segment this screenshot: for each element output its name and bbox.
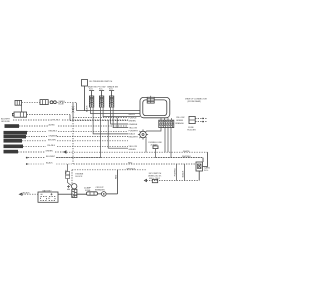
wire B5 xyxy=(23,145,128,147)
svg-text:ORANGE: ORANGE xyxy=(49,134,58,137)
wire W7 blue/white xyxy=(26,156,203,158)
bus label column xyxy=(129,114,139,151)
wire harness top row xyxy=(22,102,40,104)
wire B4 xyxy=(22,140,128,142)
label box B4 ignition xyxy=(4,139,23,143)
wire seat switch leg b xyxy=(93,107,128,134)
svg-text:WHITE: WHITE xyxy=(129,114,136,116)
wire riser x117.5 xyxy=(116,170,118,194)
key switch note text xyxy=(148,173,162,183)
wire B3 xyxy=(26,134,128,137)
svg-text:WHT/BLK: WHT/BLK xyxy=(127,168,137,170)
right connector J2 xyxy=(175,116,208,131)
wire red run label xyxy=(128,163,133,165)
wire connector drop to starter xyxy=(66,164,71,185)
svg-text:BROWN: BROWN xyxy=(48,140,56,142)
svg-text:INTERLOCK: INTERLOCK xyxy=(4,147,16,149)
circuit breaker CB1 xyxy=(95,187,106,196)
svg-text:ORANGE: ORANGE xyxy=(129,123,138,126)
svg-text:SOL.: SOL. xyxy=(204,170,209,172)
wire ground lead xyxy=(13,119,128,121)
connector end view A1 xyxy=(138,129,148,139)
svg-text:LIGHT RELAY: LIGHT RELAY xyxy=(4,136,17,139)
oil pressure switch S4 xyxy=(82,80,113,87)
battery BT1 xyxy=(38,189,58,202)
bullet connector pair xyxy=(50,101,56,104)
terminal pin block J1 xyxy=(159,120,174,127)
wire pin leg 2 xyxy=(164,128,166,153)
svg-text:PURPLE: PURPLE xyxy=(129,117,138,119)
svg-text:ORANGE: ORANGE xyxy=(175,122,184,125)
wire brake switch leg b xyxy=(113,107,128,128)
svg-text:AMMETER: AMMETER xyxy=(5,125,16,128)
wire vertical x73.5 to lower run xyxy=(72,121,74,165)
svg-text:RED: RED xyxy=(128,163,133,165)
fuse F1 xyxy=(84,187,98,196)
inline connector marks on drop B xyxy=(72,106,74,112)
svg-text:BLACK: BLACK xyxy=(129,133,136,136)
svg-text:GREEN: GREEN xyxy=(176,120,184,122)
starter M1 xyxy=(72,184,77,198)
label box B1 ammeter xyxy=(5,124,20,128)
svg-text:WHITE: WHITE xyxy=(183,151,190,153)
svg-text:RED/BLK: RED/BLK xyxy=(49,130,58,132)
text view of connector xyxy=(185,98,207,103)
wire harness lower row xyxy=(27,114,70,116)
svg-text:BLACK: BLACK xyxy=(46,162,53,165)
svg-text:YELLOW: YELLOW xyxy=(129,146,137,148)
wire black drop xyxy=(182,164,185,181)
svg-text:YEL/BLK: YEL/BLK xyxy=(47,145,56,147)
wire engine top run xyxy=(72,168,146,170)
engine block dashed outline xyxy=(72,170,84,185)
carb solenoid K1 xyxy=(196,152,211,180)
wire junction riser xyxy=(116,118,118,128)
svg-text:GREEN: GREEN xyxy=(129,120,137,122)
wire B1 xyxy=(19,124,128,127)
wire B6 xyxy=(18,150,66,153)
wire connector leg down xyxy=(145,138,147,152)
svg-text:BLACK: BLACK xyxy=(86,105,89,112)
connector J3 xyxy=(66,172,70,179)
wire pin leg 1 xyxy=(147,128,162,131)
wire breaker to riser xyxy=(106,193,117,195)
wire wht/blk run xyxy=(56,156,203,158)
svg-text:MODULE: MODULE xyxy=(4,152,13,154)
wire starter to breaker xyxy=(77,193,102,195)
key switch face U1 xyxy=(140,96,170,118)
wire brake switch leg a xyxy=(111,107,128,124)
wire seat switch leg a xyxy=(91,107,140,114)
svg-text:IGNITION: IGNITION xyxy=(4,141,13,143)
svg-text:RED: RED xyxy=(116,174,118,179)
svg-text:RED/WHT: RED/WHT xyxy=(129,136,139,138)
wire W8 black run xyxy=(26,162,196,165)
svg-text:BLU/WHT: BLU/WHT xyxy=(46,156,56,158)
wire B2 xyxy=(27,130,128,132)
wire battery positive lead xyxy=(58,185,72,194)
svg-text:WHT/BLK: WHT/BLK xyxy=(182,156,192,158)
svg-text:HEADLIGHT SW.: HEADLIGHT SW. xyxy=(4,132,20,135)
svg-text:BLACK: BLACK xyxy=(23,192,30,195)
svg-text:YELLOW: YELLOW xyxy=(176,117,184,119)
svg-text:RED: RED xyxy=(66,169,68,174)
harness elbow xyxy=(21,105,23,112)
svg-text:BLUE: BLUE xyxy=(59,103,65,105)
node label BLK/WHT xyxy=(1,119,11,124)
wire harness drop B xyxy=(72,103,74,121)
brake switch S3 xyxy=(107,85,118,107)
svg-text:BLACK: BLACK xyxy=(182,170,185,177)
label box B5 interlock xyxy=(4,145,24,149)
wire white run xyxy=(67,151,208,153)
svg-text:FUSE: FUSE xyxy=(188,127,194,129)
svg-text:GREEN: GREEN xyxy=(129,149,137,151)
svg-text:PUR/WHT: PUR/WHT xyxy=(129,131,139,133)
wire battery ground lead xyxy=(20,192,39,196)
wire harness drop A xyxy=(73,117,128,119)
wire aux drop xyxy=(108,121,128,149)
harness connector P2 xyxy=(40,100,48,105)
pto switch S2 xyxy=(98,86,106,107)
label box B6 module xyxy=(4,150,19,154)
harness connector P3 xyxy=(12,112,26,117)
svg-text:YELLOW: YELLOW xyxy=(129,128,137,130)
seat switch S1 xyxy=(88,85,97,107)
wire bottom right run xyxy=(145,179,200,181)
svg-text:YEL/BLK: YEL/BLK xyxy=(52,119,61,121)
svg-text:OIL PRESSURE SWITCH: OIL PRESSURE SWITCH xyxy=(89,81,113,83)
svg-text:GROUND: GROUND xyxy=(1,121,10,123)
svg-text:PURPLE: PURPLE xyxy=(175,168,177,177)
svg-text:BLOCK: BLOCK xyxy=(76,176,83,178)
harness connector P1 xyxy=(15,100,22,105)
svg-text:GREEN: GREEN xyxy=(46,150,54,152)
wire pto switch leg b xyxy=(103,107,140,117)
wire pto switch leg a xyxy=(100,107,102,158)
svg-text:(FROM REAR): (FROM REAR) xyxy=(188,100,202,103)
label box B3 taillights xyxy=(4,135,27,139)
svg-text:HOLDER: HOLDER xyxy=(187,130,196,132)
fusible link text xyxy=(149,142,163,158)
wire purple drop xyxy=(175,164,177,181)
wire pin leg 4 xyxy=(170,128,172,158)
pin block top ticks xyxy=(161,118,171,120)
wire pin leg 3 xyxy=(167,128,169,153)
label box B2 headlights xyxy=(4,131,28,135)
wire drop B to bus xyxy=(70,120,128,122)
wire BLACK from oil switch down to bus xyxy=(77,86,141,112)
svg-text:A-RED: A-RED xyxy=(49,124,56,127)
wire harness to verticals xyxy=(57,100,76,111)
svg-text:BREAKER: BREAKER xyxy=(95,189,105,192)
svg-text:CARB.: CARB. xyxy=(204,166,211,169)
